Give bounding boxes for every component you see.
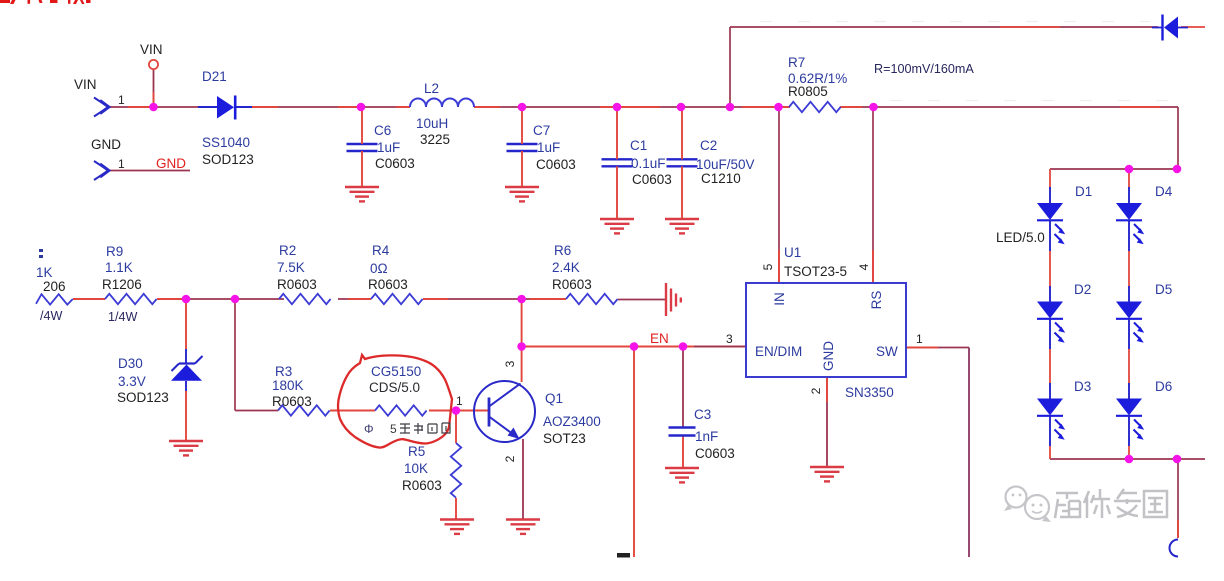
- transistor Q1: [474, 381, 535, 442]
- junction node (521.6,346.5): [517, 342, 526, 351]
- wire C3 drop: [682, 347, 684, 428]
- diode D21: [198, 96, 252, 120]
- wire U1 gnd drop: [826, 377, 828, 467]
- inductor L2: [410, 99, 474, 108]
- svg-text:C0603: C0603: [536, 157, 576, 172]
- svg-text:3: 3: [726, 332, 733, 346]
- svg-text:4: 4: [857, 263, 871, 270]
- ground Q1 emitter: [506, 520, 540, 534]
- inductor arc bottom right: [1170, 540, 1179, 557]
- ground R5: [440, 520, 474, 534]
- svg-text:TSOT23-5: TSOT23-5: [784, 264, 847, 279]
- svg-text:SN3350: SN3350: [845, 385, 894, 400]
- port VIN: [94, 98, 109, 117]
- capacitor C6: [347, 144, 378, 151]
- junction node (778.5,107): [774, 103, 783, 112]
- photoresistor note CJK strokes: [400, 423, 450, 434]
- svg-text:R1206: R1206: [102, 277, 142, 292]
- svg-text:R3: R3: [275, 364, 292, 379]
- svg-text:SOT23: SOT23: [543, 431, 586, 446]
- wire red lead segments on main rail: [128, 106, 1160, 108]
- svg-text:R6: R6: [554, 243, 571, 258]
- wire Q1 emitter drop: [522, 439, 524, 520]
- wire base net: [330, 410, 375, 412]
- resistor R4: [371, 294, 423, 304]
- junction node (1177,459): [1173, 455, 1182, 464]
- svg-text:10K: 10K: [404, 461, 428, 476]
- svg-text:C1210: C1210: [701, 171, 741, 186]
- svg-text:5: 5: [390, 422, 397, 436]
- svg-text:VIN: VIN: [74, 77, 97, 92]
- junction node (522,107): [518, 103, 527, 112]
- labels black footprints: [43, 42, 1045, 493]
- red circle annotation: [338, 355, 452, 448]
- svg-text:IN: IN: [772, 292, 787, 306]
- pin number labels: [118, 93, 923, 462]
- ground C1: [600, 219, 634, 233]
- capacitor C1: [602, 159, 633, 166]
- junction node (873.5,107): [869, 103, 878, 112]
- resistor R7: [789, 102, 841, 112]
- svg-text:1: 1: [916, 332, 923, 346]
- jpeg artifact dashes: [760, 22, 1170, 101]
- wire LED top rail: [1050, 168, 1178, 170]
- svg-text:D30: D30: [118, 356, 143, 371]
- junction node (681,107): [677, 103, 686, 112]
- U1 pin names: [755, 291, 898, 371]
- svg-text:5: 5: [761, 263, 775, 270]
- watermark logo: [1004, 487, 1051, 523]
- svg-text:D21: D21: [202, 69, 227, 84]
- junction node (1177,169): [1173, 165, 1182, 174]
- svg-text:3225: 3225: [420, 132, 450, 147]
- svg-text:SS1040: SS1040: [202, 135, 250, 150]
- wire main horizontal rail: [108, 106, 1178, 108]
- ground C7: [505, 187, 539, 201]
- svg-text:R0603: R0603: [552, 277, 592, 292]
- wire EN drop to bottom: [633, 347, 635, 558]
- junction node (456,410.5): [452, 406, 461, 415]
- wire GND port stub: [107, 170, 190, 172]
- watermark text CJK strokes: [1055, 489, 1167, 518]
- LED D1: [1037, 204, 1065, 245]
- junction node (1129,459): [1125, 455, 1134, 464]
- svg-text:EN: EN: [650, 331, 669, 346]
- svg-text:C0603: C0603: [632, 172, 672, 187]
- resistor R5 vertical: [451, 443, 461, 498]
- resistor R8 partial: [36, 294, 73, 304]
- labels navy designators/values: [36, 55, 1173, 476]
- svg-text:R7: R7: [788, 55, 805, 70]
- ground C2: [665, 219, 699, 233]
- svg-text:U1: U1: [784, 245, 801, 260]
- svg-text:0Ω: 0Ω: [370, 261, 388, 276]
- svg-text:C0603: C0603: [695, 446, 735, 461]
- ground sideways R6: [666, 283, 681, 316]
- wire LED bottom rail: [1050, 458, 1205, 460]
- svg-text:/4W: /4W: [40, 309, 63, 323]
- junction node (1129,169): [1125, 165, 1134, 174]
- svg-text:R2: R2: [279, 243, 296, 258]
- svg-text:SOD123: SOD123: [202, 152, 254, 167]
- svg-text:R=100mV/160mA: R=100mV/160mA: [874, 62, 974, 76]
- black bar bottom: [617, 553, 630, 558]
- svg-text:GND: GND: [156, 156, 186, 171]
- svg-text:1nF: 1nF: [695, 429, 718, 444]
- svg-text:SOD123: SOD123: [117, 390, 169, 405]
- svg-text:R0603: R0603: [402, 478, 442, 493]
- svg-text:1: 1: [456, 394, 463, 408]
- svg-text:C1: C1: [630, 138, 647, 153]
- wire SW net: [906, 347, 969, 349]
- svg-text:D1: D1: [1075, 184, 1092, 199]
- svg-text:1K: 1K: [36, 265, 53, 280]
- svg-text:2: 2: [503, 455, 517, 462]
- wire U1 pin5 drop: [778, 107, 780, 283]
- svg-text:R0603: R0603: [272, 394, 312, 409]
- svg-text:GND: GND: [91, 137, 121, 152]
- svg-text:D4: D4: [1155, 184, 1173, 199]
- svg-text:180K: 180K: [272, 378, 304, 393]
- svg-text:C7: C7: [533, 123, 550, 138]
- svg-text:7.5K: 7.5K: [277, 260, 305, 275]
- wire R3 branch drop: [234, 299, 236, 411]
- svg-text:L2: L2: [424, 81, 439, 96]
- junction node (361,107): [357, 103, 366, 112]
- resistor R9: [105, 294, 157, 304]
- svg-text:GND: GND: [821, 341, 836, 371]
- junction node (235,299): [231, 295, 240, 304]
- svg-text:R0603: R0603: [277, 277, 317, 292]
- junction node (634,346.5): [630, 342, 639, 351]
- svg-text:1uF: 1uF: [377, 140, 400, 155]
- wire D30 drop: [185, 299, 187, 349]
- wire SW drop to bottom: [968, 348, 970, 558]
- resistor R2: [279, 294, 331, 304]
- svg-text:10uH: 10uH: [416, 116, 448, 131]
- svg-text:1: 1: [118, 93, 125, 107]
- wire Q1 collector riser: [521, 299, 523, 382]
- svg-text:SW: SW: [876, 344, 898, 359]
- svg-text:AOZ3400: AOZ3400: [543, 414, 601, 429]
- svg-text:10uF/50V: 10uF/50V: [696, 157, 755, 172]
- capacitor C2: [667, 159, 698, 166]
- capacitor C3: [669, 428, 696, 436]
- svg-text:R0603: R0603: [368, 277, 408, 292]
- op-amp U1 box: [746, 283, 906, 377]
- svg-text:R4: R4: [372, 243, 390, 258]
- LED D2: [1037, 302, 1065, 343]
- wire VIN stub: [153, 69, 155, 107]
- capacitor C7: [507, 144, 538, 151]
- svg-text:Φ: Φ: [364, 422, 374, 436]
- junction node (683,346.5): [679, 342, 688, 351]
- svg-text:EN/DIM: EN/DIM: [755, 344, 802, 359]
- svg-text:CDS/5.0: CDS/5.0: [369, 380, 420, 395]
- ground C6: [345, 187, 379, 201]
- labels power texts mono: [40, 62, 974, 324]
- ground D30: [169, 441, 203, 455]
- svg-text:3.3V: 3.3V: [118, 374, 146, 389]
- ground U1 pin2: [810, 467, 844, 481]
- svg-text:2.4K: 2.4K: [552, 260, 580, 275]
- resistor R6: [566, 294, 618, 304]
- svg-text:CG5150: CG5150: [371, 364, 421, 379]
- svg-text:D6: D6: [1155, 379, 1172, 394]
- svg-text:VIN: VIN: [140, 42, 163, 57]
- LED D4: [1116, 204, 1144, 245]
- port GND: [94, 161, 109, 180]
- svg-text:1: 1: [118, 157, 125, 171]
- svg-text:1/4W: 1/4W: [108, 310, 138, 324]
- node VIN circle: [149, 60, 158, 69]
- wire top freewheel rail: [730, 26, 1158, 28]
- svg-text:C6: C6: [374, 123, 391, 138]
- photoresistor CG5150: [375, 405, 427, 415]
- junction node (521.6,299): [517, 295, 526, 304]
- svg-text:LED/5.0: LED/5.0: [996, 230, 1045, 245]
- svg-text:C2: C2: [700, 138, 717, 153]
- LED D6: [1116, 399, 1144, 440]
- resistor R3: [278, 405, 330, 415]
- svg-text:1.1K: 1.1K: [105, 260, 133, 275]
- wire R5 drop: [455, 411, 457, 444]
- wire divider rail y299: [73, 298, 666, 301]
- svg-text:R9: R9: [106, 244, 123, 259]
- svg-text:2: 2: [809, 387, 823, 394]
- LED D5: [1116, 302, 1144, 343]
- diode D22 freewheel: [1152, 15, 1188, 41]
- svg-text:3: 3: [503, 360, 517, 367]
- red top-left text fragments: [0, 0, 91, 4]
- LED D3: [1037, 399, 1065, 440]
- svg-text:1uF: 1uF: [537, 140, 560, 155]
- junction node (617,107): [613, 103, 622, 112]
- svg-text:Q1: Q1: [545, 391, 563, 406]
- junction node (186,299): [182, 295, 191, 304]
- wire EN net: [522, 346, 746, 348]
- wire U1 pin4 drop: [872, 107, 874, 283]
- ground C3: [665, 468, 699, 482]
- svg-text:R0805: R0805: [788, 84, 828, 99]
- svg-text:RS: RS: [869, 291, 884, 310]
- wire LED right drop: [1177, 459, 1179, 537]
- zener D30: [171, 356, 203, 381]
- junction node (730,107): [726, 103, 735, 112]
- svg-text:D2: D2: [1074, 282, 1091, 297]
- wire right drop to LED rail: [1177, 107, 1179, 169]
- junction node (153.5,107): [149, 103, 158, 112]
- svg-text:D3: D3: [1074, 379, 1091, 394]
- svg-text:C0603: C0603: [375, 156, 415, 171]
- wire vertical to top rail: [729, 27, 731, 107]
- svg-text:C3: C3: [694, 407, 711, 422]
- svg-text:206: 206: [43, 279, 66, 294]
- labels red nets: [156, 156, 669, 346]
- svg-text:0.1uF: 0.1uF: [631, 156, 666, 171]
- svg-text:R5: R5: [408, 444, 425, 459]
- svg-text:D5: D5: [1155, 282, 1172, 297]
